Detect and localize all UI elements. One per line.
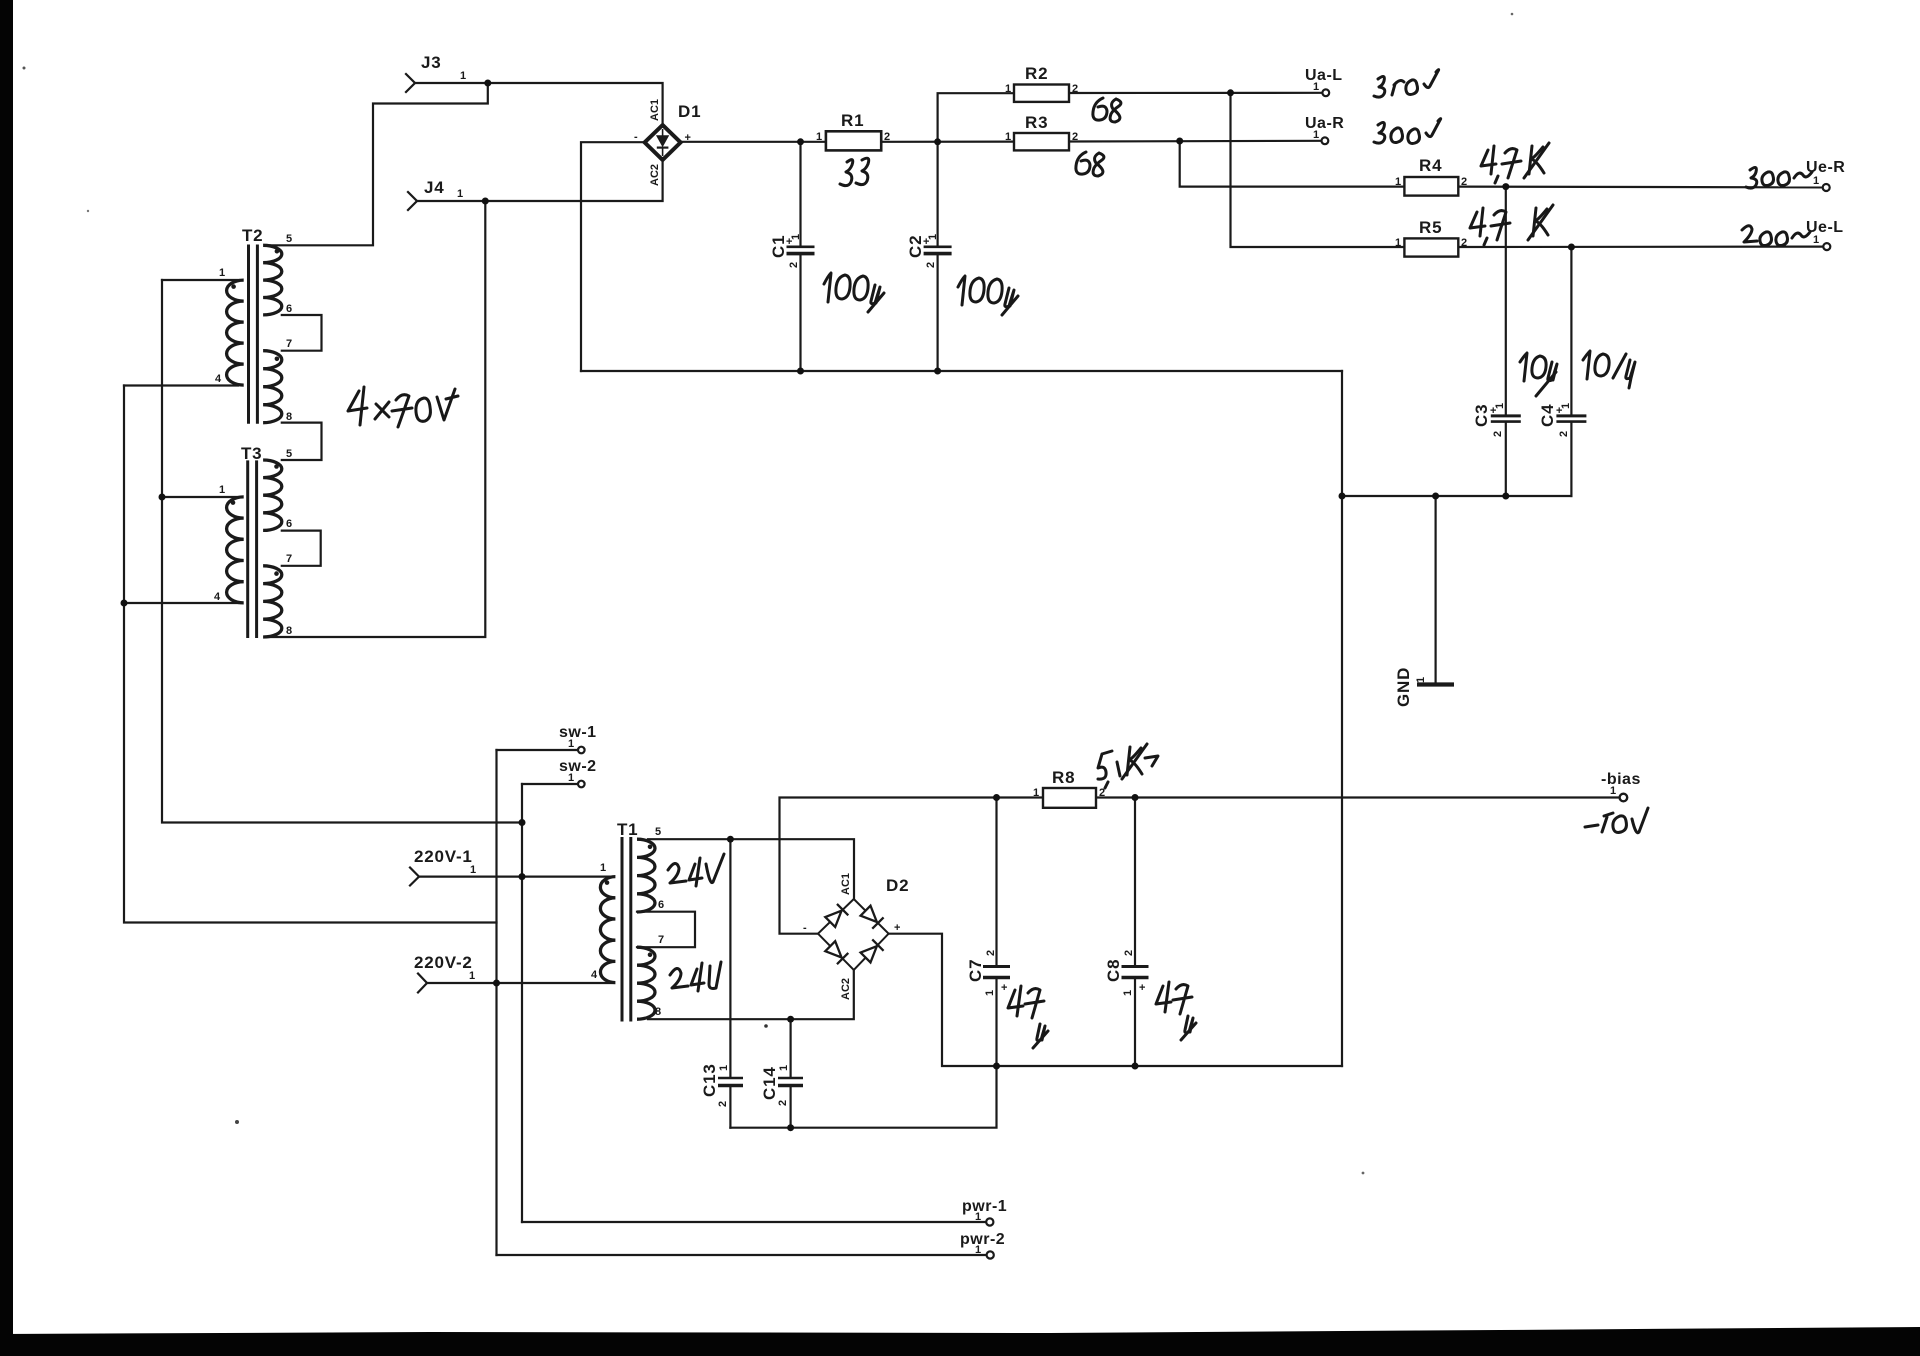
transformer T1 secondary coil 5-6 — [637, 839, 655, 912]
svg-text:1: 1 — [1813, 175, 1819, 187]
wire J3 node down to T2 pin5 — [270, 83, 488, 245]
svg-text:1: 1 — [1005, 83, 1011, 95]
scan artifact: bottom black strip — [0, 1327, 1920, 1356]
svg-text:1: 1 — [219, 484, 225, 496]
wire J3 to node — [415, 82, 488, 84]
wire D2 plus down to bottom bus — [889, 934, 1342, 1066]
svg-text:2: 2 — [925, 262, 937, 268]
D2 diode bottom-right — [860, 939, 884, 963]
junction C1 bottom bus — [797, 368, 804, 375]
transformer T3 primary coil — [227, 497, 244, 603]
wire T2 pin6 to pin7 link — [282, 315, 322, 351]
svg-text:5: 5 — [655, 826, 661, 838]
handwritten 5,1K for R8 — [1098, 744, 1158, 788]
capacitor C13 plates — [718, 1077, 743, 1080]
svg-text:R5: R5 — [1419, 218, 1442, 237]
junction T3 pin4 — [121, 600, 128, 607]
svg-text:+: + — [1139, 982, 1145, 994]
svg-text:J4: J4 — [424, 178, 445, 197]
terminal Ue-R circle — [1823, 184, 1830, 191]
junction ground line corner — [1339, 493, 1346, 500]
svg-text:8: 8 — [655, 1006, 661, 1018]
wire C1 bottom to bus — [799, 255, 801, 372]
junction T3 pin1 — [159, 494, 166, 501]
transformer T3 secondary coil 7-8 — [263, 566, 282, 637]
svg-text:1: 1 — [600, 862, 606, 874]
handwritten 350V near Ua-L — [1374, 70, 1439, 97]
handwritten 4,7K near R4 — [1481, 143, 1549, 183]
handwritten 300 wave near Ue-R — [1746, 167, 1812, 188]
junction sw-2 net upper — [519, 819, 526, 826]
svg-text:1: 1 — [975, 1244, 981, 1256]
svg-text:2: 2 — [884, 131, 890, 143]
svg-text:2: 2 — [777, 1100, 789, 1106]
svg-text:pwr-2: pwr-2 — [960, 1231, 1005, 1248]
wire T1 pin6 to pin7 link — [637, 912, 695, 948]
T3 polarity dots — [231, 500, 236, 505]
wire node Ua-L down to R5 pin1 — [1231, 93, 1405, 247]
terminal sw-2 circle — [578, 781, 585, 788]
terminal -bias circle — [1620, 794, 1628, 802]
svg-text:1: 1 — [816, 131, 822, 143]
svg-text:1: 1 — [457, 188, 463, 200]
capacitor C8 plates — [1122, 965, 1149, 968]
junction C7 top on R8 line — [993, 794, 1000, 801]
svg-text:C13: C13 — [700, 1063, 719, 1097]
svg-text:1: 1 — [1395, 237, 1401, 249]
wire node Ua-R down to R4 pin1 — [1180, 141, 1405, 187]
wire T1 pin5 to D2 AC1 — [648, 839, 854, 899]
capacitor C2 plates — [924, 246, 952, 249]
wire J4 node down to T3 pin8 — [269, 201, 485, 637]
junction J3 node — [484, 80, 491, 87]
junction T1 pin5 / C13 — [727, 836, 734, 843]
svg-text:5: 5 — [286, 448, 292, 460]
svg-text:AC1: AC1 — [840, 873, 852, 895]
handwritten value 100u for C1 — [824, 273, 884, 312]
junction C8 bottom bus — [1132, 1063, 1139, 1070]
junction C7 bottom bus — [993, 1063, 1000, 1070]
junction R5 output — [1568, 244, 1575, 251]
capacitor C3 plates — [1491, 414, 1521, 417]
wire C8 bottom leg — [1134, 980, 1136, 1066]
svg-text:2: 2 — [985, 950, 997, 956]
svg-text:C4: C4 — [1538, 404, 1557, 427]
ground symbol GND stem — [1434, 496, 1436, 684]
svg-text:D1: D1 — [678, 102, 701, 121]
wire sw-2 to vertical — [522, 783, 578, 785]
junction J4 node — [482, 198, 489, 205]
svg-text:1: 1 — [460, 70, 466, 82]
transformer T2 secondary coil 5-6 — [263, 245, 282, 315]
svg-text:2: 2 — [717, 1101, 729, 1107]
wire sw-1 to vertical — [497, 749, 578, 751]
wire node to R2 pin1 — [938, 93, 1014, 142]
handwritten 10u for C3 — [1520, 353, 1557, 396]
junction Ua-L branch — [1227, 89, 1234, 96]
wire C3 bottom to ground line — [1505, 422, 1507, 496]
wire vertical T2/T3 pin1 chain down to sw net — [162, 280, 522, 823]
resistor R4 body — [1404, 177, 1458, 196]
svg-text:7: 7 — [286, 338, 292, 350]
svg-text:2: 2 — [1461, 176, 1467, 188]
svg-text:1: 1 — [1813, 234, 1819, 246]
resistor R1 body — [826, 131, 881, 150]
svg-text:J3: J3 — [421, 53, 442, 72]
wire C14 vertical from T1 pin8 node — [789, 1019, 791, 1076]
junction sw-1 net at 220V-2 — [493, 980, 500, 987]
wire C2 top — [936, 142, 938, 246]
transformer T3 core — [246, 460, 249, 638]
handwritten 47u for C8 — [1156, 982, 1196, 1040]
wire R5 pin2 to terminal Ue-L — [1458, 246, 1823, 249]
ground symbol GND bar — [1417, 682, 1454, 686]
svg-text:1: 1 — [1610, 785, 1616, 797]
svg-text:1: 1 — [1313, 81, 1319, 93]
junction C1 top — [797, 138, 804, 145]
svg-text:T3: T3 — [241, 444, 262, 463]
wire ground bus down right — [1341, 371, 1343, 496]
scan artifact: left black strip — [0, 0, 13, 1356]
wire R2 pin2 to terminal Ua-L — [1069, 92, 1322, 94]
wire R8 line to R8 pin1 — [997, 796, 1044, 798]
handwritten 200 wave near Ue-L — [1742, 226, 1810, 246]
junction C2 bottom bus — [934, 368, 941, 375]
wire ground long vertical to bottom bus — [1341, 496, 1343, 1066]
svg-text:2: 2 — [1072, 83, 1078, 95]
svg-text:D2: D2 — [886, 876, 909, 895]
wire R1 pin2 to R3 pin1 — [881, 141, 1014, 143]
svg-text:1: 1 — [1313, 129, 1319, 141]
svg-text:T2: T2 — [242, 226, 263, 245]
wire node J4 to D1 AC2 — [485, 160, 662, 201]
handwritten value 33 for R1 — [840, 160, 853, 186]
svg-text:6: 6 — [658, 899, 664, 911]
scan speckles — [23, 67, 26, 70]
svg-text:1: 1 — [568, 738, 574, 750]
svg-text:2: 2 — [788, 262, 800, 268]
handwritten 300V near Ua-R — [1374, 119, 1441, 144]
svg-text:1: 1 — [984, 990, 996, 996]
wire D2 minus up to R8 line — [780, 798, 997, 934]
wire sw-2 vertical down to pwr-1 — [521, 784, 523, 1222]
svg-text:-bias: -bias — [1601, 771, 1641, 788]
handwritten -50V for -bias — [1585, 808, 1648, 833]
svg-text:AC1: AC1 — [649, 99, 661, 121]
wire D1 plus to R1 pin1 — [681, 141, 826, 143]
svg-text:1: 1 — [1494, 403, 1506, 409]
svg-text:2: 2 — [1558, 431, 1570, 437]
wire C14 bottom to bus — [789, 1087, 791, 1128]
wire sw-1 vertical down to pwr-2 — [495, 750, 497, 1255]
svg-text:4: 4 — [591, 969, 598, 981]
wire ground line to C4 — [1342, 495, 1571, 497]
wire C2 bottom to bus — [936, 255, 938, 372]
wire T2 pin4 — [124, 384, 238, 386]
handwritten value 68 for R3 — [1076, 152, 1104, 176]
svg-text:4: 4 — [215, 373, 222, 385]
capacitor C1 plates — [787, 246, 815, 249]
wire T1 pin8 to D2 AC2 — [648, 970, 854, 1019]
wire node R5 down to capacitor C4 — [1570, 247, 1572, 415]
svg-text:AC2: AC2 — [840, 978, 852, 1000]
resistor R8 body — [1043, 788, 1096, 808]
svg-text:1: 1 — [1560, 403, 1572, 409]
handwritten 4,7 K near R5 — [1470, 205, 1553, 245]
wire pwr-2 horizontal — [497, 1254, 987, 1256]
terminal Ua-L circle — [1322, 89, 1329, 96]
junction GND stem — [1432, 493, 1439, 500]
wire C13 vertical from T1 pin5 node — [729, 839, 731, 1076]
svg-text:2: 2 — [1492, 431, 1504, 437]
svg-text:AC2: AC2 — [649, 164, 661, 186]
connector 220V-2 arrow — [418, 974, 427, 993]
svg-text:1: 1 — [1033, 787, 1039, 799]
connector J3 arrow — [406, 74, 415, 92]
svg-text:R8: R8 — [1052, 768, 1075, 787]
svg-text:C7: C7 — [966, 959, 985, 982]
wire D1 minus to ground bus — [581, 142, 645, 371]
capacitor C7 plates — [983, 965, 1010, 968]
transformer T1 core — [621, 837, 624, 1022]
svg-text:C14: C14 — [760, 1066, 779, 1100]
transformer T2 secondary coil 7-8 — [263, 351, 282, 423]
handwritten 24V for T1 upper — [668, 854, 724, 886]
bridge rectifier D2 diamond edges — [818, 899, 889, 970]
wire C8 top leg — [1134, 798, 1136, 965]
terminal sw-1 circle — [578, 747, 585, 754]
svg-text:7: 7 — [658, 934, 664, 946]
svg-text:Ua-R: Ua-R — [1305, 115, 1344, 132]
handwritten value 68 for R2 — [1093, 98, 1121, 122]
svg-text:1: 1 — [219, 267, 225, 279]
wire C13 bottom — [729, 1087, 731, 1128]
wire node J3 to D1 AC1 — [488, 83, 663, 125]
svg-text:T1: T1 — [617, 820, 638, 839]
svg-text:1: 1 — [1122, 990, 1134, 996]
T2 polarity dots — [231, 284, 236, 289]
capacitor C4 plates — [1556, 414, 1586, 417]
wire 220V-2 to T1 pin4 — [427, 982, 611, 984]
wire T3 pin1 — [162, 496, 239, 498]
svg-text:1: 1 — [718, 1065, 730, 1071]
transformer T2 core — [247, 245, 250, 424]
svg-text:6: 6 — [286, 303, 292, 315]
wire T2 pin1 — [162, 279, 239, 281]
svg-text:2: 2 — [1072, 131, 1078, 143]
svg-text:pwr-1: pwr-1 — [962, 1198, 1007, 1215]
svg-text:1: 1 — [469, 970, 475, 982]
handwritten 24U for T1 lower — [670, 962, 721, 991]
svg-text:+: + — [1001, 982, 1007, 994]
svg-text:+: + — [894, 922, 900, 934]
svg-text:R2: R2 — [1025, 64, 1048, 83]
D2 diode top-left — [825, 904, 849, 928]
svg-text:1: 1 — [778, 1065, 790, 1071]
svg-text:1: 1 — [790, 234, 802, 240]
svg-text:1: 1 — [1005, 131, 1011, 143]
svg-text:C3: C3 — [1472, 404, 1491, 427]
junction C8 top on R8 line — [1132, 794, 1139, 801]
handwritten value 100u for C2 — [958, 276, 1018, 315]
terminal pwr-1 circle — [986, 1218, 993, 1225]
svg-text:2: 2 — [1123, 950, 1135, 956]
resistor R2 body — [1014, 85, 1069, 102]
connector 220V-1 arrow — [410, 868, 419, 886]
handwritten 10u for C4 — [1583, 351, 1635, 388]
wire C13/C14 bottom bus to C7 leg — [730, 1066, 996, 1128]
wire C7 bottom leg — [995, 980, 997, 1066]
D2 diode bottom-left — [825, 941, 849, 965]
junction C3 bottom — [1502, 493, 1509, 500]
svg-text:2: 2 — [1461, 237, 1467, 249]
resistor R3 body — [1014, 133, 1069, 150]
resistor R5 body — [1404, 238, 1458, 256]
T1 polarity dots — [605, 880, 610, 885]
svg-text:sw-1: sw-1 — [559, 724, 597, 741]
handwritten value 4x70V for T2/T3 — [348, 387, 458, 427]
transformer T2 primary coil — [227, 280, 244, 385]
capacitor C14 plates — [778, 1077, 803, 1080]
svg-text:220V-1: 220V-1 — [414, 847, 473, 866]
connector J4 arrow — [408, 192, 417, 210]
svg-text:-: - — [803, 922, 807, 934]
wire pwr-1 horizontal — [522, 1221, 986, 1223]
handwritten 47u for C7 — [1008, 986, 1048, 1048]
transformer T1 secondary coil 7-8 — [637, 947, 655, 1019]
junction T1 pin8 / C14 — [787, 1016, 794, 1023]
svg-text:220V-2: 220V-2 — [414, 953, 473, 972]
svg-text:4: 4 — [214, 591, 221, 603]
svg-text:5: 5 — [286, 233, 292, 245]
svg-text:+: + — [685, 132, 691, 144]
svg-text:8: 8 — [286, 411, 292, 423]
wire J4 to node — [417, 200, 485, 202]
wire ground bus horizontal — [581, 370, 1342, 372]
terminal Ua-R circle — [1322, 137, 1329, 144]
wire node R4 down to capacitor C3 — [1505, 187, 1507, 415]
svg-text:1: 1 — [1395, 176, 1401, 188]
svg-text:R1: R1 — [841, 111, 864, 130]
wire T3 pin6 to pin7 link — [282, 531, 321, 566]
svg-text:1: 1 — [927, 234, 939, 240]
svg-text:-: - — [634, 131, 638, 143]
wire vertical T2/T3 pin4 chain down — [124, 386, 497, 923]
wire R8 pin2 to terminal -bias — [1096, 796, 1619, 798]
svg-text:sw-2: sw-2 — [559, 758, 597, 775]
terminal Ue-L circle — [1823, 243, 1830, 250]
junction C2 top — [934, 138, 941, 145]
wire 220V-1 to T1 pin1 — [419, 875, 611, 877]
junction Ua-R branch — [1176, 138, 1183, 145]
svg-text:Ua-L: Ua-L — [1305, 67, 1343, 84]
bridge rectifier D1 diamond — [645, 125, 681, 160]
D1 internal diode glyph — [657, 136, 669, 146]
svg-text:8: 8 — [286, 625, 292, 637]
svg-text:R4: R4 — [1419, 156, 1442, 175]
junction sw-2 net at 220V-1 — [519, 873, 526, 880]
svg-text:1: 1 — [568, 772, 574, 784]
svg-text:1: 1 — [470, 864, 476, 876]
terminal pwr-2 circle — [987, 1251, 994, 1258]
wire C4 bottom to ground line — [1570, 422, 1572, 496]
wire R3 pin2 to terminal Ua-R — [1069, 140, 1321, 143]
wire C7 top leg — [995, 798, 997, 965]
svg-text:C8: C8 — [1104, 959, 1123, 982]
transformer T3 secondary coil 5-6 — [263, 460, 282, 530]
wire T3 pin4 — [124, 602, 238, 604]
svg-text:GND: GND — [1394, 667, 1413, 707]
svg-text:Ue-L: Ue-L — [1806, 219, 1844, 236]
junction R4 output — [1502, 183, 1509, 190]
D2 diode top-right — [860, 905, 884, 929]
svg-text:7: 7 — [286, 553, 292, 565]
svg-text:1: 1 — [975, 1211, 981, 1223]
svg-text:6: 6 — [286, 518, 292, 530]
wire C1 top — [799, 142, 801, 246]
wire T2 pin8 to T3 pin5 link — [282, 423, 322, 460]
junction C14 bottom bus — [787, 1124, 794, 1131]
svg-text:1: 1 — [1415, 677, 1427, 683]
wire R4 pin2 to terminal Ue-R — [1458, 186, 1822, 189]
svg-text:R3: R3 — [1025, 113, 1048, 132]
transformer T1 primary coil — [600, 877, 615, 983]
